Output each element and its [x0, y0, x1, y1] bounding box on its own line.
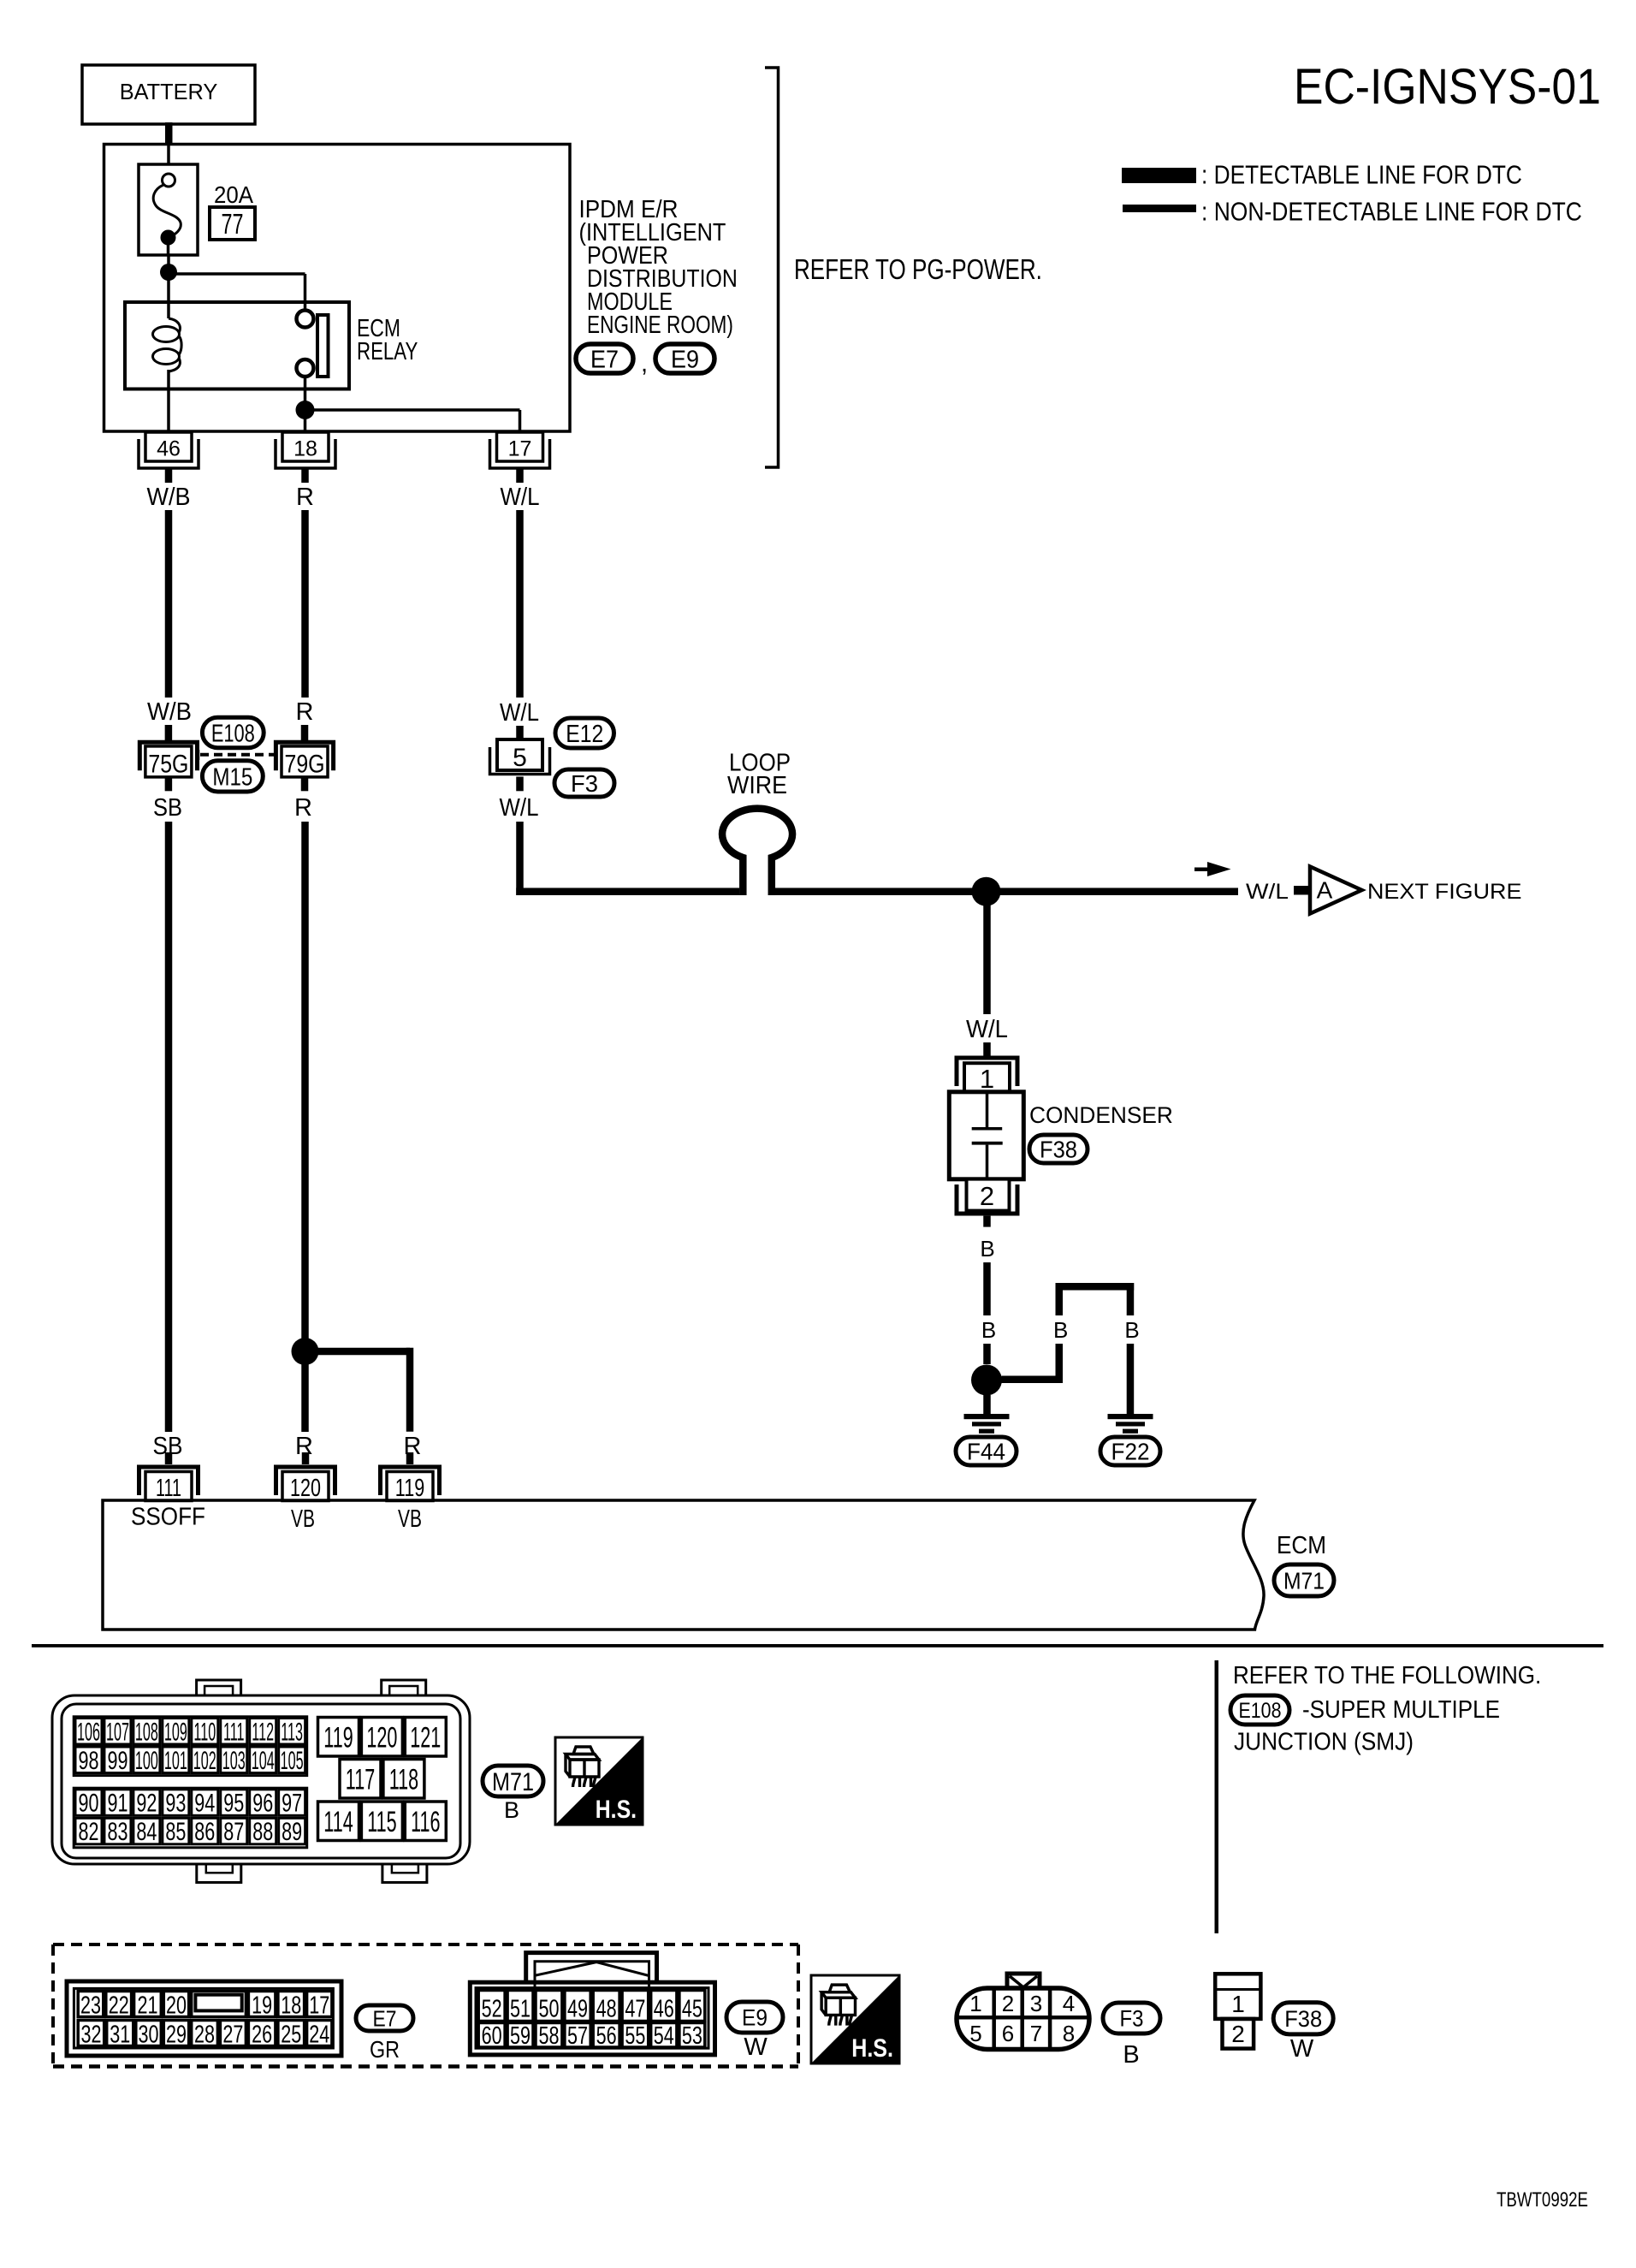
svg-text:EC-IGNSYS-01: EC-IGNSYS-01	[1294, 58, 1601, 114]
svg-text:WIRE: WIRE	[727, 771, 787, 799]
svg-text:M71: M71	[492, 1767, 534, 1796]
svg-text:88: 88	[252, 1816, 273, 1845]
svg-text:57: 57	[567, 2022, 588, 2050]
svg-text:4: 4	[1063, 1991, 1075, 2016]
svg-text:H.S.: H.S.	[851, 2033, 893, 2063]
svg-text:54: 54	[654, 2022, 674, 2050]
svg-text:20A: 20A	[214, 181, 253, 208]
svg-text:VB: VB	[398, 1505, 422, 1533]
svg-text:E12: E12	[566, 720, 603, 747]
svg-text:1: 1	[980, 1064, 994, 1094]
svg-text:W/L: W/L	[966, 1014, 1008, 1042]
svg-text:ENGINE ROOM): ENGINE ROOM)	[587, 310, 733, 338]
svg-text:117: 117	[346, 1763, 375, 1796]
svg-text:W/B: W/B	[147, 697, 192, 725]
svg-text:104: 104	[252, 1747, 275, 1776]
svg-text:86: 86	[194, 1816, 215, 1845]
svg-text:120: 120	[290, 1475, 321, 1502]
svg-text:2: 2	[980, 1181, 994, 1211]
svg-text:R: R	[296, 484, 314, 511]
svg-text:79G: 79G	[284, 749, 324, 778]
svg-text:121: 121	[410, 1721, 441, 1754]
svg-text:85: 85	[165, 1816, 186, 1845]
svg-text:22: 22	[109, 1992, 129, 2020]
svg-text:31: 31	[110, 2022, 130, 2049]
svg-text:21: 21	[137, 1992, 157, 2020]
svg-text:116: 116	[411, 1806, 440, 1838]
svg-text:26: 26	[252, 2022, 272, 2049]
svg-text:29: 29	[166, 2022, 187, 2049]
svg-text:E7: E7	[373, 2007, 397, 2032]
svg-text:18: 18	[281, 1992, 301, 2020]
svg-text:: NON-DETECTABLE LINE FOR DTC: : NON-DETECTABLE LINE FOR DTC	[1201, 198, 1582, 227]
svg-text:53: 53	[682, 2022, 702, 2050]
svg-text:27: 27	[222, 2022, 243, 2049]
svg-text:108: 108	[135, 1718, 158, 1747]
svg-text:97: 97	[282, 1788, 302, 1817]
svg-text:111: 111	[156, 1475, 181, 1502]
svg-text:58: 58	[538, 2022, 559, 2050]
svg-text:105: 105	[281, 1747, 304, 1776]
svg-text:F3: F3	[1120, 2006, 1144, 2032]
svg-text:18: 18	[293, 437, 317, 461]
svg-text:REFER TO PG-POWER.: REFER TO PG-POWER.	[794, 254, 1042, 286]
svg-text:2: 2	[1002, 1991, 1014, 2016]
svg-text:2: 2	[1231, 2021, 1245, 2047]
svg-text:B: B	[981, 1317, 996, 1343]
svg-text:8: 8	[1063, 2021, 1075, 2046]
svg-text:55: 55	[625, 2022, 645, 2050]
svg-text:32: 32	[80, 2022, 101, 2049]
svg-text:B: B	[1124, 1317, 1139, 1343]
svg-text:48: 48	[596, 1996, 617, 2023]
svg-text:6: 6	[1002, 2021, 1014, 2046]
svg-text:101: 101	[164, 1747, 187, 1776]
svg-text:96: 96	[252, 1788, 273, 1817]
svg-text:B: B	[1053, 1317, 1068, 1343]
svg-text:W/L: W/L	[501, 483, 540, 511]
svg-text:ECM: ECM	[1277, 1531, 1326, 1559]
svg-text:99: 99	[107, 1745, 127, 1774]
svg-text:102: 102	[193, 1747, 216, 1776]
svg-text:: DETECTABLE LINE FOR DTC: : DETECTABLE LINE FOR DTC	[1201, 161, 1522, 191]
svg-text:83: 83	[107, 1816, 127, 1845]
svg-text:BATTERY: BATTERY	[120, 80, 218, 104]
svg-text:E7: E7	[590, 346, 619, 373]
svg-text:F38: F38	[1040, 1137, 1077, 1163]
svg-text:115: 115	[367, 1806, 396, 1838]
svg-text:VB: VB	[291, 1505, 315, 1533]
svg-text:RELAY: RELAY	[357, 338, 418, 365]
svg-text:E108: E108	[1239, 1698, 1282, 1722]
svg-text:W: W	[1290, 2035, 1314, 2063]
svg-text:51: 51	[510, 1996, 531, 2023]
svg-text:112: 112	[252, 1718, 274, 1747]
svg-text:5: 5	[969, 2021, 981, 2046]
svg-text:TBWT0992E: TBWT0992E	[1497, 2188, 1588, 2212]
svg-text:1: 1	[969, 1991, 981, 2016]
svg-text:114: 114	[323, 1806, 353, 1838]
svg-text:M15: M15	[212, 763, 252, 791]
svg-text:JUNCTION (SMJ): JUNCTION (SMJ)	[1234, 1727, 1414, 1755]
svg-text:F44: F44	[967, 1438, 1005, 1465]
svg-text:H.S.: H.S.	[596, 1795, 637, 1824]
svg-text:77: 77	[222, 209, 244, 240]
svg-text:50: 50	[538, 1996, 559, 2023]
svg-text:M71: M71	[1283, 1567, 1325, 1594]
svg-text:W/L: W/L	[500, 793, 539, 822]
svg-text:94: 94	[194, 1788, 215, 1817]
svg-text:SB: SB	[153, 793, 182, 821]
svg-text:REFER TO THE FOLLOWING.: REFER TO THE FOLLOWING.	[1233, 1661, 1541, 1689]
svg-text:113: 113	[281, 1718, 303, 1747]
svg-text:98: 98	[78, 1745, 98, 1774]
svg-text:84: 84	[136, 1816, 157, 1845]
svg-text:23: 23	[80, 1992, 101, 2020]
svg-text:47: 47	[625, 1996, 645, 2023]
svg-text:CONDENSER: CONDENSER	[1029, 1102, 1173, 1128]
svg-text:110: 110	[193, 1718, 216, 1747]
svg-text:F3: F3	[571, 770, 598, 797]
svg-text:120: 120	[366, 1721, 397, 1754]
svg-text:25: 25	[281, 2022, 301, 2049]
svg-text:87: 87	[223, 1816, 244, 1845]
svg-text:107: 107	[106, 1718, 129, 1747]
svg-text:49: 49	[567, 1996, 588, 2023]
svg-text:118: 118	[389, 1763, 418, 1796]
svg-text:90: 90	[78, 1788, 98, 1817]
svg-text:95: 95	[223, 1788, 244, 1817]
svg-text:17: 17	[309, 1992, 329, 2020]
svg-text:3: 3	[1030, 1991, 1042, 2016]
svg-text:28: 28	[194, 2022, 215, 2049]
svg-text:B: B	[980, 1236, 994, 1262]
svg-text:E108: E108	[211, 721, 255, 748]
svg-text:109: 109	[164, 1718, 187, 1747]
svg-text:W/L: W/L	[1246, 879, 1289, 903]
svg-text:NEXT FIGURE: NEXT FIGURE	[1367, 879, 1521, 904]
svg-text:93: 93	[165, 1788, 186, 1817]
svg-text:75G: 75G	[148, 749, 188, 778]
svg-text:E9: E9	[742, 2006, 768, 2031]
svg-text:111: 111	[223, 1718, 245, 1747]
svg-text:B: B	[504, 1797, 519, 1823]
svg-text:20: 20	[166, 1992, 187, 2020]
svg-text:B: B	[1123, 2041, 1139, 2069]
svg-text:W: W	[744, 2033, 768, 2061]
svg-text:24: 24	[309, 2022, 329, 2049]
svg-text:45: 45	[682, 1996, 702, 2023]
svg-text:100: 100	[135, 1747, 158, 1776]
svg-text:60: 60	[482, 2022, 502, 2050]
svg-text:E9: E9	[671, 346, 699, 373]
svg-text:119: 119	[323, 1721, 353, 1754]
svg-text:59: 59	[510, 2022, 531, 2050]
svg-text:19: 19	[252, 1992, 272, 2020]
svg-text:91: 91	[107, 1788, 127, 1817]
svg-text:-SUPER MULTIPLE: -SUPER MULTIPLE	[1302, 1695, 1500, 1724]
svg-text:106: 106	[77, 1718, 100, 1747]
svg-text:SSOFF: SSOFF	[131, 1502, 205, 1530]
svg-text:119: 119	[395, 1475, 424, 1502]
svg-text:82: 82	[78, 1816, 98, 1845]
svg-text:GR: GR	[370, 2037, 400, 2063]
svg-text:F38: F38	[1284, 2005, 1322, 2032]
svg-text:46: 46	[654, 1996, 674, 2023]
svg-text:103: 103	[222, 1747, 246, 1776]
svg-text:,: ,	[641, 350, 648, 377]
svg-text:1: 1	[1231, 1991, 1245, 2017]
svg-text:46: 46	[157, 437, 181, 461]
svg-text:7: 7	[1030, 2021, 1042, 2046]
svg-text:89: 89	[282, 1816, 302, 1845]
svg-text:5: 5	[513, 744, 527, 772]
svg-text:W/B: W/B	[147, 483, 191, 510]
svg-text:30: 30	[139, 2022, 159, 2049]
svg-text:W/L: W/L	[500, 698, 539, 727]
svg-text:52: 52	[482, 1996, 502, 2023]
svg-text:17: 17	[508, 437, 532, 461]
svg-text:R: R	[294, 794, 312, 822]
svg-text:F22: F22	[1111, 1438, 1150, 1465]
svg-text:R: R	[296, 698, 314, 726]
svg-text:56: 56	[596, 2022, 617, 2050]
svg-text:A: A	[1317, 877, 1333, 904]
svg-text:92: 92	[136, 1788, 157, 1817]
